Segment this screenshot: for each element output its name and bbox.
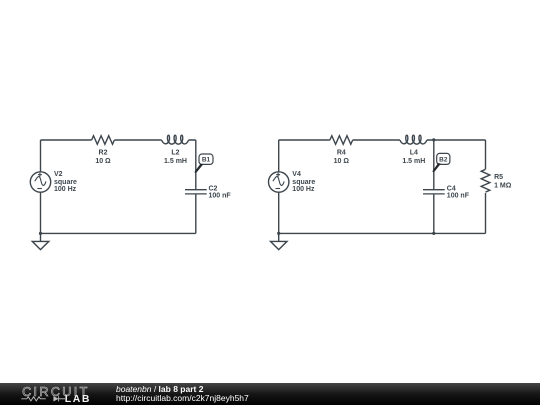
wire: right circuit top rail: [279, 139, 486, 141]
svg-text:100 Hz: 100 Hz: [292, 186, 315, 193]
junction dot (right circuit bottom left): [277, 232, 280, 235]
svg-text:V2: V2: [54, 171, 63, 178]
svg-text:V4: V4: [292, 171, 301, 178]
svg-text:100 nF: 100 nF: [209, 193, 232, 200]
inductor L4: [400, 135, 427, 144]
CircuitLab logo: [0, 383, 110, 405]
svg-text:B1: B1: [202, 157, 211, 164]
voltage source V2: [30, 172, 50, 192]
logo diode triangle: [53, 396, 58, 401]
junction dot (left circuit bottom): [39, 232, 42, 235]
wire: right circuit far right rail: [485, 140, 487, 233]
svg-text:L2: L2: [171, 150, 179, 157]
svg-text:LAB: LAB: [65, 395, 91, 405]
svg-text:100 Hz: 100 Hz: [54, 186, 77, 193]
svg-text:L4: L4: [410, 150, 418, 157]
svg-text:10 Ω: 10 Ω: [95, 158, 111, 165]
svg-text:square: square: [292, 179, 315, 186]
resistor R2: [92, 136, 115, 145]
wire: right circuit left rail: [278, 140, 280, 233]
svg-text:1 MΩ: 1 MΩ: [494, 183, 512, 190]
node B1 tail: [194, 164, 203, 173]
wire: right circuit middle branch: [433, 140, 435, 233]
svg-text:C2: C2: [209, 185, 218, 192]
capacitor C2: [185, 190, 207, 194]
svg-text:1.5 mH: 1.5 mH: [164, 158, 187, 165]
wire: left circuit top rail: [41, 139, 196, 141]
svg-text:100 nF: 100 nF: [447, 193, 470, 200]
svg-text:1.5 mH: 1.5 mH: [402, 158, 425, 165]
svg-text:R4: R4: [337, 150, 346, 157]
svg-text:B2: B2: [439, 156, 448, 163]
footer bar: [0, 383, 540, 405]
wire: left circuit left rail: [40, 140, 42, 233]
svg-text:R5: R5: [494, 174, 503, 181]
ground (left circuit): [32, 233, 49, 249]
ground (right circuit): [271, 233, 288, 249]
footer title text: [116, 385, 203, 394]
resistor R5: [481, 169, 490, 192]
node B2 tail: [432, 163, 441, 172]
voltage source V4: [269, 172, 289, 192]
node B1 bubble: [199, 154, 213, 164]
wire: right circuit bottom rail: [279, 232, 486, 234]
resistor R4: [330, 136, 353, 145]
logo resistor zigzag and diode: [21, 397, 65, 402]
svg-text:square: square: [54, 179, 77, 186]
svg-text:R2: R2: [99, 150, 108, 157]
wire: left circuit right rail: [195, 140, 197, 233]
footer url text: [116, 394, 249, 403]
node B2 bubble: [437, 153, 450, 164]
junction dot (L4 output node): [432, 138, 435, 141]
wire: left circuit bottom rail: [41, 232, 196, 234]
svg-text:C4: C4: [447, 185, 456, 192]
inductor L2: [162, 135, 189, 144]
capacitor C4: [423, 190, 445, 194]
junction dot (C4 bottom): [432, 232, 435, 235]
svg-text:10 Ω: 10 Ω: [334, 158, 350, 165]
